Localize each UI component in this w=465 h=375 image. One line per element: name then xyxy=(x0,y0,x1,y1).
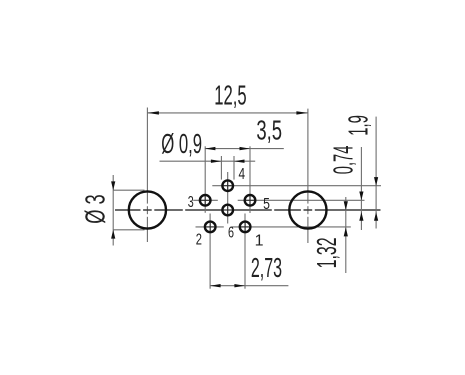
arrow dim 0,74 bottom xyxy=(359,212,363,221)
arrow dim diameter 3 top xyxy=(111,181,115,190)
arrow dim 2,73 left xyxy=(210,284,221,287)
wire dimension line 2,73 xyxy=(210,285,288,287)
svg-text:2: 2 xyxy=(196,232,202,249)
wire dimension line 0,74 xyxy=(360,147,362,230)
svg-text:Ø 0,9: Ø 0,9 xyxy=(161,128,202,159)
svg-text:12,5: 12,5 xyxy=(214,79,246,110)
svg-text:4: 4 xyxy=(239,166,246,183)
wire dimension line 1,32 xyxy=(345,197,347,273)
wire extension line pin 5 for dim 3,5 xyxy=(249,146,251,213)
wire pin 1 horizontal crosshair and extension for dim 1,32 xyxy=(232,226,351,228)
mounting hole left diameter 3 xyxy=(129,191,166,228)
arrow dim diameter 3 bottom xyxy=(111,230,115,239)
arrow dim 12,5 left xyxy=(147,111,159,114)
svg-text:1,32: 1,32 xyxy=(311,237,342,268)
wire pin 3 horizontal crosshair xyxy=(193,199,218,201)
pin 1 xyxy=(240,222,251,233)
wire top extension line of dim diameter 3 xyxy=(113,189,144,191)
arrow dim 0,74 top xyxy=(359,192,363,201)
wire pin 4 horizontal crosshair and extension for dim 1,9 xyxy=(212,185,381,187)
pin 6 center xyxy=(222,205,233,216)
wire left extension line of hole 0,9 xyxy=(220,156,222,180)
arrow dim 1,9 top xyxy=(374,177,378,186)
wire dimension line 1,9 xyxy=(375,117,377,229)
pin 3 xyxy=(200,195,211,206)
wire extension line right of dim 12,5 / right hole centerline xyxy=(307,109,309,243)
mounting hole right diameter 3 xyxy=(289,191,326,228)
wire vertical centerline through pins 4 and 6 xyxy=(227,172,229,224)
centerline dash gaps xyxy=(141,204,315,217)
wire extension line left of dim 12,5 / left hole centerline xyxy=(146,108,148,243)
wire pin 5 horizontal crosshair and extension for dim 0,74 xyxy=(238,199,365,201)
arrow dim 3,5 right xyxy=(240,147,251,150)
wire dimension line 3,5 xyxy=(205,148,284,150)
arrow dim 1,32 bottom xyxy=(344,227,348,236)
svg-text:3: 3 xyxy=(188,194,194,211)
pin 4 xyxy=(222,180,233,191)
svg-text:1: 1 xyxy=(255,233,264,250)
wire bottom extension line of dim diameter 3 xyxy=(113,229,144,231)
wire pin 1 vertical crosshair and extension for dim 2,73 xyxy=(244,214,246,289)
svg-text:0,74: 0,74 xyxy=(327,146,358,175)
wire pin 2 vertical crosshair and extension for dim 2,73 xyxy=(209,214,211,289)
wire dimension line diameter 0,9 xyxy=(160,160,256,162)
wire pin 2 horizontal crosshair xyxy=(196,226,224,228)
svg-text:1,9: 1,9 xyxy=(343,115,374,136)
wire horizontal centerline xyxy=(115,209,381,211)
svg-text:Ø 3: Ø 3 xyxy=(80,194,111,224)
arrow dim 0,9 right xyxy=(234,160,245,163)
pin 2 xyxy=(205,222,216,233)
svg-text:2,73: 2,73 xyxy=(251,252,282,283)
arrow dim 2,73 right xyxy=(234,284,245,287)
wire extension line pin 3 for dim 3,5 xyxy=(204,146,206,213)
svg-text:5: 5 xyxy=(263,196,270,213)
pin 5 xyxy=(245,195,256,206)
arrow dim 0,9 left xyxy=(211,160,222,163)
arrow dim 3,5 left xyxy=(205,147,216,150)
svg-text:3,5: 3,5 xyxy=(256,115,282,146)
arrow dim 12,5 right xyxy=(296,111,308,114)
arrow dim 1,32 top xyxy=(344,201,348,210)
wire dimension line 12,5 xyxy=(147,112,308,114)
wire right extension line of hole 0,9 xyxy=(233,156,235,180)
arrow dim 1,9 bottom xyxy=(374,212,378,221)
wire dimension line diameter 3 xyxy=(112,175,114,246)
svg-text:6: 6 xyxy=(228,224,234,241)
